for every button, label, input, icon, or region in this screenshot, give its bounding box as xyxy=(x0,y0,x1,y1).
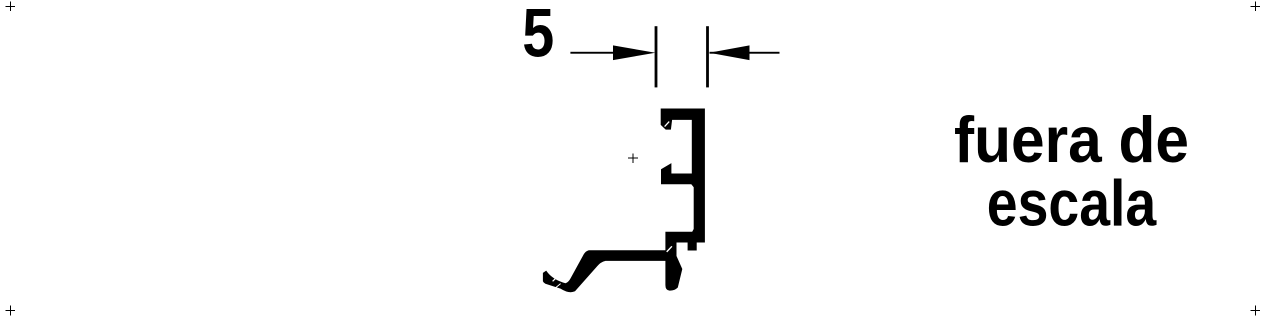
dimension extension line right xyxy=(706,26,709,87)
svg-text:escala: escala xyxy=(987,167,1157,240)
registration mark top-left xyxy=(6,2,15,11)
arrowhead left xyxy=(613,45,655,60)
white gap sliver along hook band xyxy=(558,278,566,281)
arrowhead right xyxy=(709,45,749,60)
caption: fuera de escala xyxy=(954,103,1189,239)
white gap slash in hook lower xyxy=(555,284,561,289)
profile bottom arm and hook xyxy=(543,250,666,292)
registration mark bottom-left xyxy=(6,306,15,316)
center cross mark xyxy=(628,153,638,163)
svg-text:fuera de: fuera de xyxy=(954,103,1189,176)
dimension extension line left xyxy=(655,26,658,87)
white gap slash in top lip xyxy=(665,122,670,127)
svg-text:5: 5 xyxy=(522,0,554,72)
dimension line right xyxy=(710,52,780,54)
white gap slash in hook upper xyxy=(553,276,559,282)
dimension line left xyxy=(570,52,630,54)
white gap slash at arm-leg junction xyxy=(667,246,672,252)
aluminium profile cross-section xyxy=(661,109,705,291)
registration mark top-right xyxy=(1250,2,1259,11)
registration mark bottom-right xyxy=(1250,306,1259,316)
